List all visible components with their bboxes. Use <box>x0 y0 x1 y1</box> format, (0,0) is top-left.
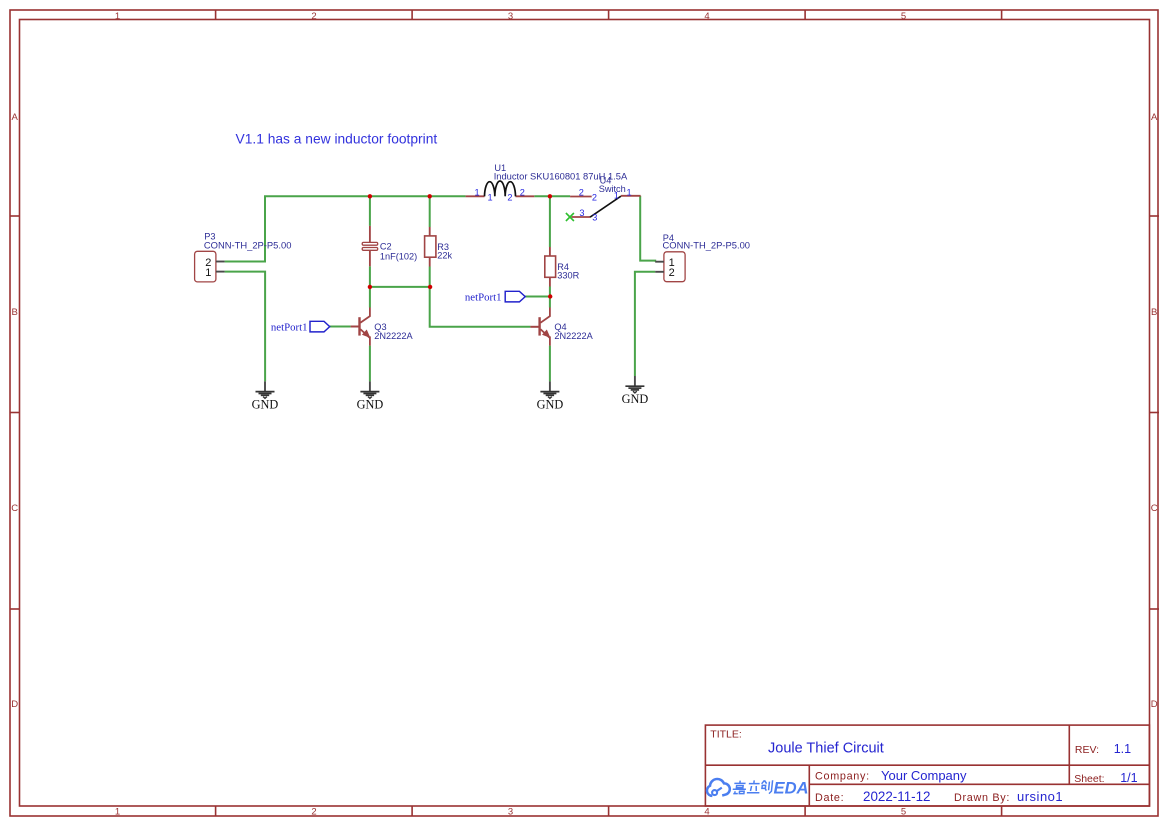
svg-text:1: 1 <box>488 192 493 202</box>
svg-text:GND: GND <box>357 397 384 411</box>
svg-text:1nF(102): 1nF(102) <box>380 251 417 261</box>
svg-text:EDA: EDA <box>774 778 809 797</box>
svg-text:22k: 22k <box>437 250 452 260</box>
svg-text:Your Company: Your Company <box>881 768 967 783</box>
svg-text:1: 1 <box>205 267 211 279</box>
svg-text:3: 3 <box>508 807 513 818</box>
svg-text:2: 2 <box>579 188 584 198</box>
svg-text:1: 1 <box>614 190 619 200</box>
svg-text:5: 5 <box>901 807 906 818</box>
svg-text:2: 2 <box>669 267 675 279</box>
svg-text:2: 2 <box>520 188 525 198</box>
svg-text:4: 4 <box>704 11 709 22</box>
svg-text:V1.1 has a new inductor footpr: V1.1 has a new inductor footprint <box>236 132 438 147</box>
svg-text:GND: GND <box>537 397 564 411</box>
svg-text:C: C <box>1151 503 1158 514</box>
svg-text:D: D <box>1151 699 1158 710</box>
svg-text:1: 1 <box>115 11 120 22</box>
svg-text:3: 3 <box>592 213 597 223</box>
svg-text:1.1: 1.1 <box>1114 742 1131 756</box>
svg-text:B: B <box>12 307 18 318</box>
svg-text:2022-11-12: 2022-11-12 <box>863 789 931 804</box>
svg-text:CONN-TH_2P-P5.00: CONN-TH_2P-P5.00 <box>663 239 751 250</box>
svg-text:netPort1: netPort1 <box>271 321 308 333</box>
svg-text:4: 4 <box>704 807 709 818</box>
svg-text:3: 3 <box>579 208 584 218</box>
svg-text:3: 3 <box>508 11 513 22</box>
svg-text:Switch: Switch <box>599 184 626 194</box>
svg-text:Date:: Date: <box>815 792 844 804</box>
svg-text:1: 1 <box>627 188 632 198</box>
svg-text:1: 1 <box>475 188 480 198</box>
svg-text:1: 1 <box>115 807 120 818</box>
svg-text:2: 2 <box>507 192 512 202</box>
svg-text:2: 2 <box>592 192 597 202</box>
svg-text:330R: 330R <box>557 271 579 281</box>
svg-text:A: A <box>12 112 19 123</box>
svg-text:2: 2 <box>311 11 316 22</box>
svg-text:ursino1: ursino1 <box>1017 789 1063 804</box>
svg-text:1/1: 1/1 <box>1120 771 1137 785</box>
svg-text:2N2222A: 2N2222A <box>554 331 593 341</box>
svg-text:2: 2 <box>311 807 316 818</box>
svg-text:GND: GND <box>622 392 649 406</box>
svg-text:Company:: Company: <box>815 770 870 782</box>
svg-text:GND: GND <box>252 397 279 411</box>
svg-text:C: C <box>11 503 18 514</box>
svg-text:D: D <box>11 699 18 710</box>
svg-text:2N2222A: 2N2222A <box>374 331 413 341</box>
svg-text:5: 5 <box>901 11 906 22</box>
svg-text:B: B <box>1151 307 1157 318</box>
svg-text:A: A <box>1151 112 1158 123</box>
svg-text:REV:: REV: <box>1075 744 1099 756</box>
svg-text:netPort1: netPort1 <box>465 291 502 303</box>
svg-text:Drawn By:: Drawn By: <box>954 792 1010 804</box>
svg-text:Sheet:: Sheet: <box>1074 773 1104 785</box>
svg-text:TITLE:: TITLE: <box>710 728 742 740</box>
svg-text:C2: C2 <box>380 242 392 252</box>
svg-text:CONN-TH_2P-P5.00: CONN-TH_2P-P5.00 <box>204 239 292 250</box>
svg-text:Joule Thief Circuit: Joule Thief Circuit <box>768 741 884 757</box>
